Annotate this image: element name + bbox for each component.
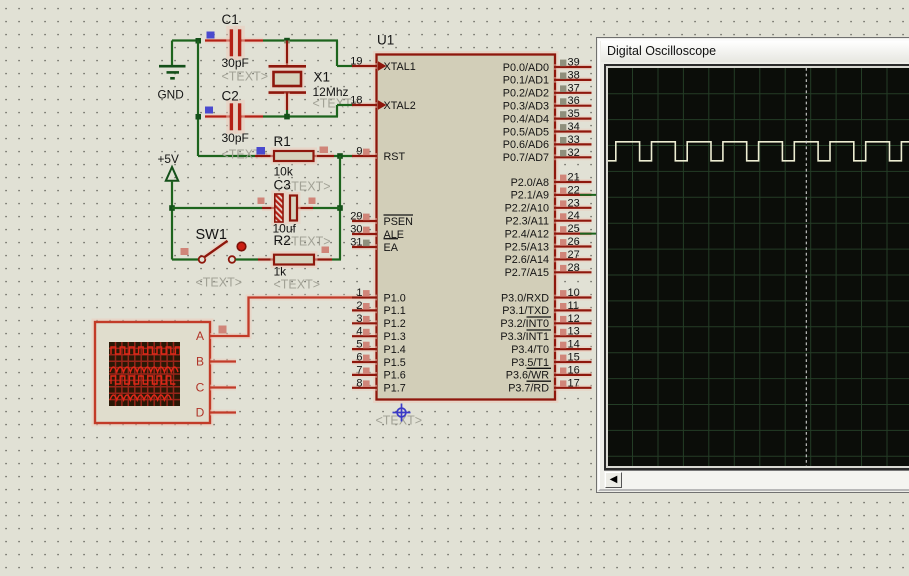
svg-text:8: 8 <box>356 377 362 389</box>
pin 36 P0.3/AD3 <box>554 103 592 109</box>
svg-text:P1.1: P1.1 <box>384 305 406 317</box>
pin 34 P0.5/AD5 <box>554 129 592 135</box>
scope terminal stubs B C D <box>210 359 236 365</box>
switch SW1 <box>172 258 199 260</box>
pin 30 ALE <box>352 231 377 237</box>
svg-text:U1: U1 <box>377 33 394 48</box>
svg-text:<TEXT>: <TEXT> <box>284 235 331 249</box>
wire GND to top rail <box>172 39 199 41</box>
node: X1 top junction <box>284 38 290 44</box>
svg-text:P0.7/AD7: P0.7/AD7 <box>503 152 549 164</box>
window title bar <box>601 41 909 62</box>
pin 16 P3.6/WR <box>554 372 592 378</box>
svg-text:B: B <box>196 355 204 369</box>
pin 31 EA <box>352 244 377 250</box>
svg-text:34: 34 <box>568 121 580 133</box>
pin 18 XTAL2 <box>352 102 377 108</box>
svg-text:22: 22 <box>568 184 580 196</box>
pin 8 P1.7 <box>352 385 377 391</box>
marker: C2 blue tag square <box>205 107 213 114</box>
svg-text:30: 30 <box>350 224 362 236</box>
crystal X1 <box>269 63 307 69</box>
wire left rail (GND/C1/C2 column) <box>197 41 199 157</box>
pin 21 P2.0/A8 <box>554 179 592 185</box>
svg-text:27: 27 <box>568 249 580 261</box>
svg-text:GND: GND <box>158 88 184 102</box>
svg-text:P1.6: P1.6 <box>384 370 406 382</box>
svg-text:4: 4 <box>356 326 362 338</box>
horizontal scrollbar <box>604 470 909 489</box>
wire C1 to XTAL1 branch <box>263 39 338 41</box>
pin 15 P3.5/T1 <box>554 359 592 365</box>
pin 5 P1.4 <box>352 346 377 352</box>
node: X1 bottom junction <box>284 114 290 120</box>
svg-text:P2.4/A12: P2.4/A12 <box>505 228 549 240</box>
svg-text:<TEXT>: <TEXT> <box>284 180 331 194</box>
svg-text:39: 39 <box>568 57 580 69</box>
svg-text:26: 26 <box>568 236 580 248</box>
svg-text:24: 24 <box>568 210 580 222</box>
svg-text:38: 38 <box>568 69 580 81</box>
pin 26 P2.5/A13 <box>554 244 592 250</box>
marker: R1 blue tag square <box>257 147 266 155</box>
svg-text:30pF: 30pF <box>222 56 249 70</box>
svg-text:23: 23 <box>568 197 580 209</box>
overbar INT1 <box>527 329 552 331</box>
origin crosshair marker <box>393 404 411 422</box>
svg-text:C3: C3 <box>274 178 291 193</box>
Digital Oscilloscope window <box>596 37 909 493</box>
svg-text:29: 29 <box>350 211 362 223</box>
pin 13 P3.3/INT1 <box>554 333 592 339</box>
pin 12 P3.2/INT0 <box>554 320 592 326</box>
svg-text:P3.6/WR: P3.6/WR <box>506 370 549 382</box>
pin 33 P0.6/AD6 <box>554 141 592 147</box>
pin 17 P3.7/RD <box>554 385 592 391</box>
svg-text:16: 16 <box>568 364 580 376</box>
svg-text:C: C <box>196 381 205 395</box>
svg-text:<TEXT>: <TEXT> <box>274 278 321 292</box>
marker: pink square left of SW1 <box>181 248 189 255</box>
svg-text:A: A <box>196 329 204 343</box>
svg-text:3: 3 <box>356 313 362 325</box>
node: top-left junction <box>196 38 202 44</box>
svg-text:XTAL2: XTAL2 <box>384 100 416 112</box>
resistor R2 <box>258 257 274 263</box>
svg-text:11: 11 <box>568 300 579 312</box>
pin 32 P0.7/AD7 <box>554 154 592 160</box>
svg-text:28: 28 <box>568 262 580 274</box>
capacitor C2 <box>205 114 230 120</box>
wire scope A to P1.0 (pin 1) <box>210 298 352 337</box>
svg-text:C2: C2 <box>222 89 239 104</box>
svg-text:33: 33 <box>568 134 580 146</box>
marker: pink square near A wire <box>219 326 227 334</box>
node: C3 left junction <box>169 205 175 211</box>
svg-text:P2.0/A8: P2.0/A8 <box>511 177 549 189</box>
pin 19 XTAL1 <box>352 63 377 69</box>
pin 7 P1.6 <box>352 372 377 378</box>
svg-text:XTAL1: XTAL1 <box>384 61 416 73</box>
wire SW1 to R2 <box>235 258 258 260</box>
svg-text:32: 32 <box>568 147 580 159</box>
svg-text:30pF: 30pF <box>222 131 249 145</box>
svg-text:25: 25 <box>568 223 580 235</box>
svg-text:RST: RST <box>384 151 406 163</box>
pin 3 P1.2 <box>352 320 377 326</box>
marker: pink squares beside C3 <box>258 198 265 205</box>
svg-text:5: 5 <box>356 339 362 351</box>
svg-text:P0.3/AD3: P0.3/AD3 <box>503 101 549 113</box>
svg-text:1: 1 <box>356 287 362 299</box>
svg-text:SW1: SW1 <box>196 227 227 243</box>
pin 39 P0.0/AD0 <box>554 64 592 70</box>
svg-text:P1.7: P1.7 <box>384 383 406 395</box>
pin 10 P3.0/RXD <box>554 295 592 301</box>
ground <box>171 41 173 67</box>
svg-text:P2.6/A14: P2.6/A14 <box>505 254 549 266</box>
svg-text:13: 13 <box>568 326 580 338</box>
svg-text:P2.2/A10: P2.2/A10 <box>505 203 549 215</box>
svg-text:2: 2 <box>356 300 362 312</box>
overbar EA <box>384 238 399 240</box>
pin 22 P2.1/A9 <box>554 192 592 198</box>
svg-text:P3.4/T0: P3.4/T0 <box>511 344 549 356</box>
pin 25 P2.4/A12 <box>554 231 592 237</box>
wire C2/X1 bottom to XTAL2 <box>263 115 338 117</box>
svg-text:10: 10 <box>568 287 580 299</box>
resistor R1 <box>255 153 274 159</box>
capacitor C3 (electrolytic 10uf) <box>262 205 275 211</box>
pin 2 P1.1 <box>352 307 377 313</box>
svg-text:P1.0: P1.0 <box>384 292 406 304</box>
svg-text:P2.7/A15: P2.7/A15 <box>505 267 549 279</box>
marker: C1 blue tag square <box>207 32 215 39</box>
svg-text:21: 21 <box>568 172 580 184</box>
node: RST junction <box>337 153 343 159</box>
pin 1 P1.0 <box>352 295 377 301</box>
svg-text:9: 9 <box>356 146 362 158</box>
wire X1 top junction down <box>284 41 290 67</box>
scope part screen <box>109 342 180 406</box>
svg-text:P3.3/INT1: P3.3/INT1 <box>500 331 549 343</box>
overbar RD <box>527 380 552 382</box>
svg-text:X1: X1 <box>314 70 331 85</box>
overbar WR <box>527 367 552 369</box>
svg-text:C1: C1 <box>222 12 239 27</box>
svg-text:17: 17 <box>568 377 580 389</box>
svg-text:P1.3: P1.3 <box>384 331 406 343</box>
pin 35 P0.4/AD4 <box>554 116 592 122</box>
svg-text:18: 18 <box>350 95 362 107</box>
oscilloscope probe part (4-channel scope symbol) <box>93 320 212 425</box>
svg-text:P1.4: P1.4 <box>384 344 406 356</box>
pin 24 P2.3/A11 <box>554 218 592 224</box>
wire R2 to right rail <box>332 258 341 260</box>
svg-text:P1.2: P1.2 <box>384 318 406 330</box>
pin 28 P2.7/A15 <box>554 269 592 275</box>
svg-text:EA: EA <box>384 242 399 254</box>
node: C3 right junction <box>337 205 343 211</box>
marker: pink square right of R1 <box>320 147 329 154</box>
wire XTAL1 corner <box>336 41 338 67</box>
svg-text:14: 14 <box>568 339 580 351</box>
svg-text:1k: 1k <box>274 265 288 279</box>
wire R1 to RST <box>334 155 353 157</box>
wire stub P2.4/A12 to scope window <box>580 233 597 235</box>
svg-text:P2.3/A11: P2.3/A11 <box>505 216 549 228</box>
microcontroller U1 (8051) body <box>375 53 557 402</box>
wire XTAL2 corner <box>336 105 338 117</box>
pin 4 P1.3 <box>352 333 377 339</box>
svg-text:P1.5: P1.5 <box>384 357 406 369</box>
svg-text:35: 35 <box>568 108 580 120</box>
pin 11 P3.1/TXD <box>554 307 592 313</box>
pin 9 RST <box>352 153 377 159</box>
pin 38 P0.1/AD1 <box>554 77 592 83</box>
wire stub P2.1/A9 to scope window <box>580 194 597 196</box>
svg-text:P3.7/RD: P3.7/RD <box>508 383 549 395</box>
capacitor C1 <box>205 38 230 44</box>
wire right rail down from RST junction <box>339 156 341 260</box>
oscilloscope screen with grid, trace and cursor <box>604 64 909 470</box>
overbar INT0 <box>527 316 552 318</box>
pin 27 P2.6/A14 <box>554 256 592 262</box>
svg-text:P0.5/AD5: P0.5/AD5 <box>503 126 549 138</box>
overbar PSEN <box>384 214 414 216</box>
svg-text:P0.6/AD6: P0.6/AD6 <box>503 139 549 151</box>
svg-text:P3.2/INT0: P3.2/INT0 <box>500 318 549 330</box>
pin 14 P3.4/T0 <box>554 346 592 352</box>
svg-text:10k: 10k <box>274 165 294 179</box>
wire C3 to right rail <box>313 207 340 209</box>
svg-text:<TEXT>: <TEXT> <box>222 70 269 84</box>
svg-text:+5V: +5V <box>158 152 179 166</box>
svg-text:R2: R2 <box>274 233 291 248</box>
svg-text:P2.5/A13: P2.5/A13 <box>505 241 549 253</box>
svg-text:6: 6 <box>356 352 362 364</box>
svg-text:7: 7 <box>356 364 362 376</box>
svg-text:31: 31 <box>350 237 362 249</box>
svg-text:PSEN: PSEN <box>384 216 413 228</box>
pin 37 P0.2/AD2 <box>554 90 592 96</box>
node: C2 junction on left rail <box>196 114 202 120</box>
pin 6 P1.5 <box>352 359 377 365</box>
svg-text:15: 15 <box>568 352 580 364</box>
svg-text:P0.0/AD0: P0.0/AD0 <box>503 62 549 74</box>
svg-text:D: D <box>196 406 205 420</box>
pin 29 PSEN <box>352 218 377 224</box>
svg-text:19: 19 <box>350 56 362 68</box>
svg-text:P3.1/TXD: P3.1/TXD <box>502 305 549 317</box>
svg-text:37: 37 <box>568 82 580 94</box>
marker: pink square right of R2 <box>322 247 330 254</box>
svg-text:P0.2/AD2: P0.2/AD2 <box>503 88 549 100</box>
wire +5V rail to C3 <box>172 207 262 209</box>
svg-text:P0.4/AD4: P0.4/AD4 <box>503 113 549 125</box>
svg-text:P3.5/T1: P3.5/T1 <box>511 357 549 369</box>
wire rail corner to R1 <box>198 155 255 157</box>
svg-text:12: 12 <box>568 313 580 325</box>
svg-text:P0.1/AD1: P0.1/AD1 <box>503 75 549 87</box>
svg-text:<TEXT>: <TEXT> <box>196 276 243 290</box>
pin 23 P2.2/A10 <box>554 205 592 211</box>
svg-text:P2.1/A9: P2.1/A9 <box>511 190 549 202</box>
svg-text:P3.0/RXD: P3.0/RXD <box>501 292 549 304</box>
svg-text:R1: R1 <box>274 134 291 149</box>
svg-text:36: 36 <box>568 95 580 107</box>
